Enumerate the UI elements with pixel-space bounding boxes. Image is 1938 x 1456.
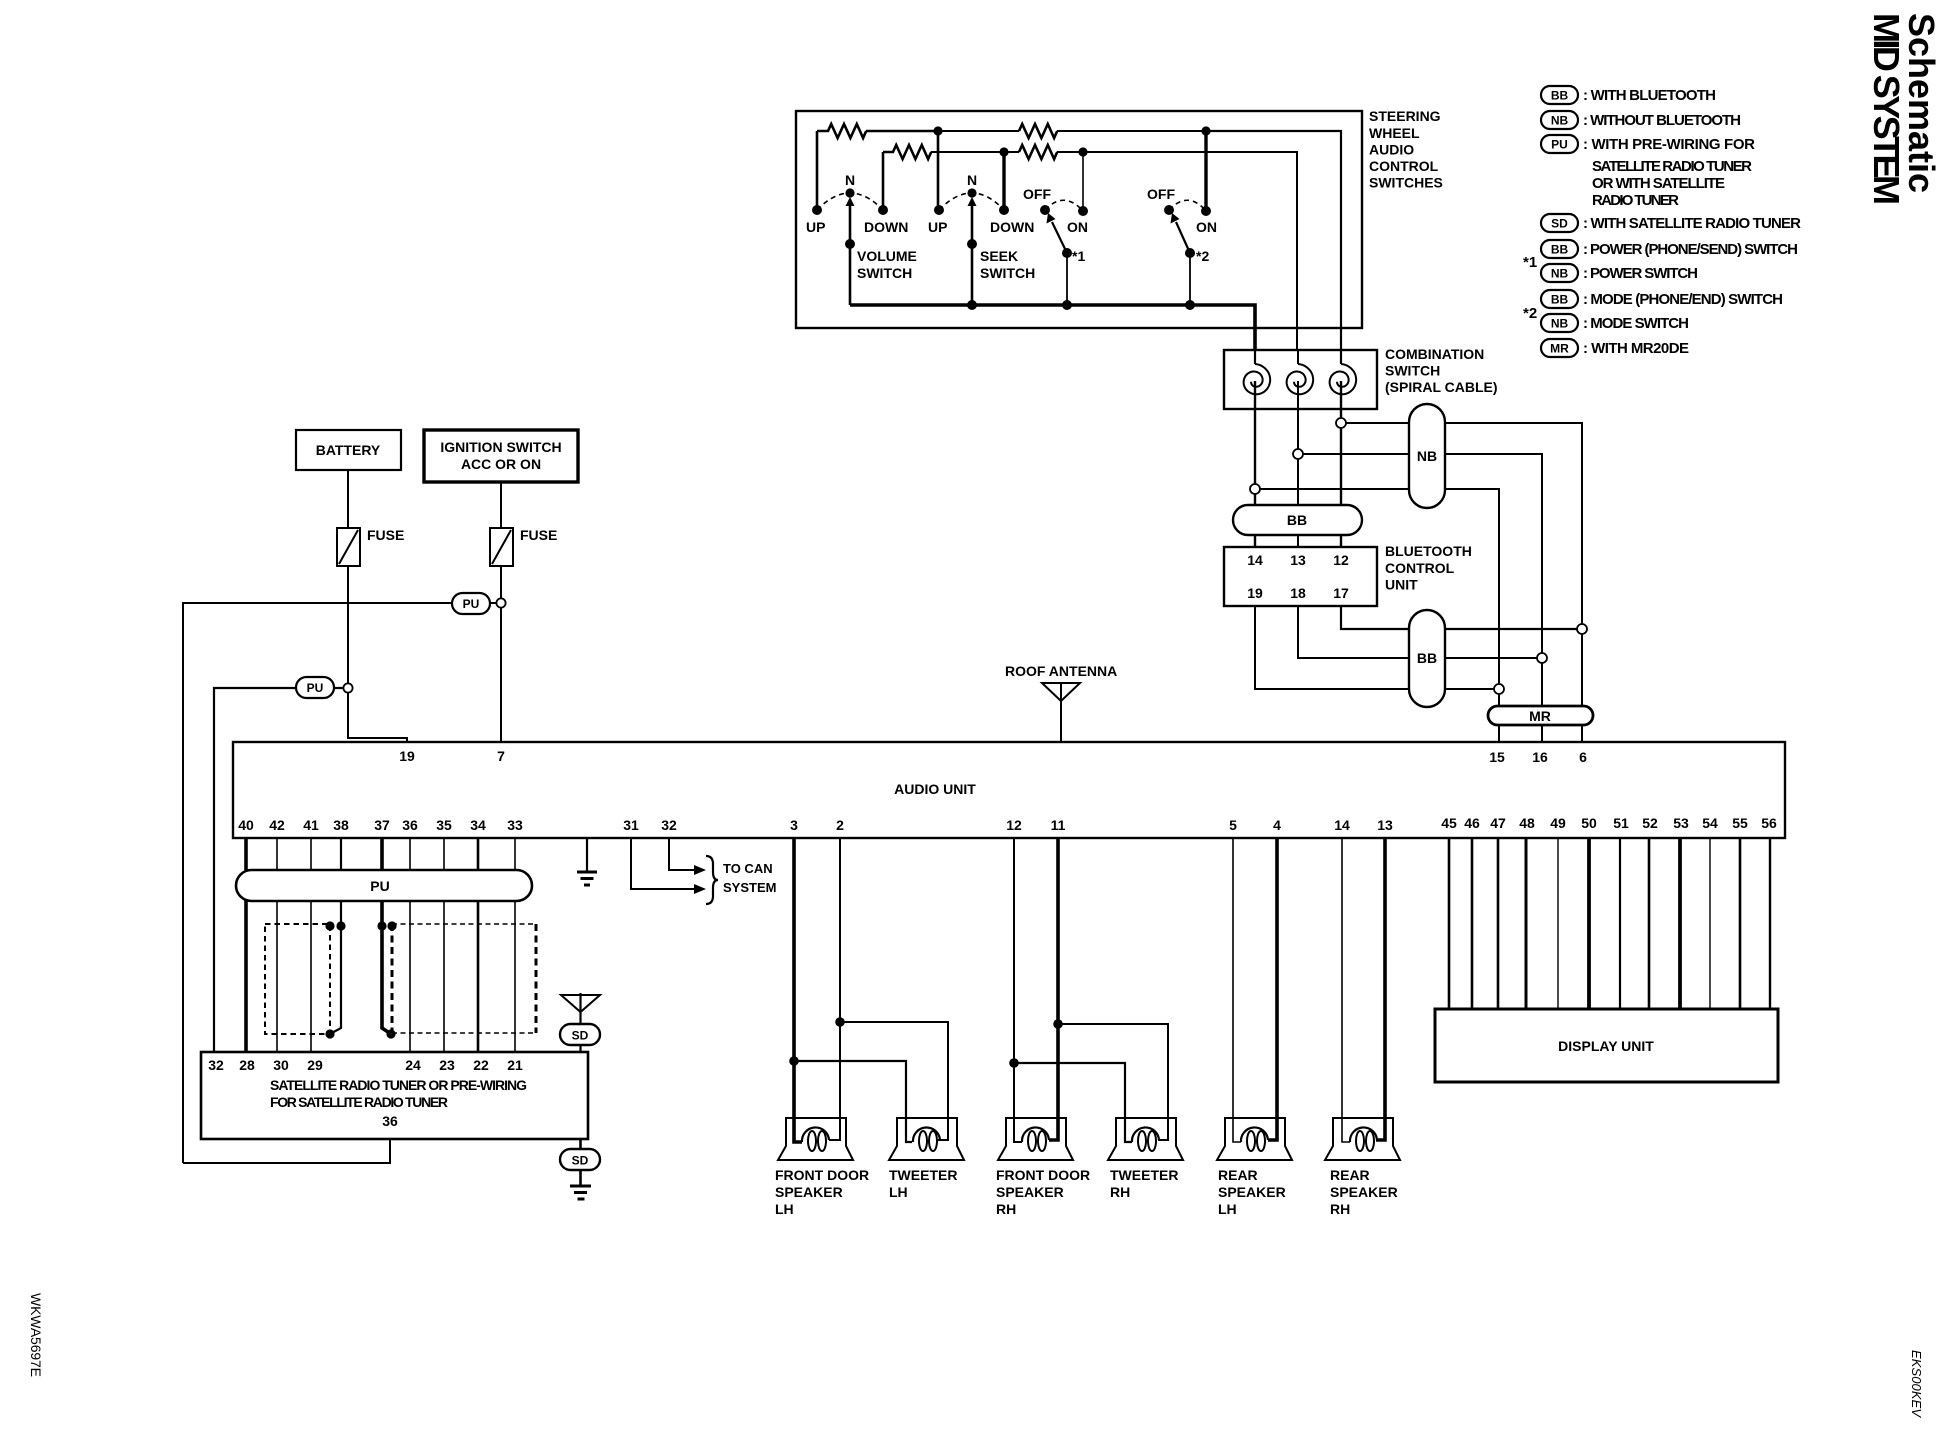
- svg-text:28: 28: [239, 1057, 255, 1073]
- wire junction d down to ON1: [1082, 152, 1084, 211]
- svg-text:NB: NB: [1417, 448, 1437, 464]
- wire common bus: [850, 305, 1255, 350]
- svg-text:22: 22: [473, 1057, 489, 1073]
- svg-text:RH: RH: [996, 1201, 1016, 1217]
- svg-text:RADIO TUNER: RADIO TUNER: [1592, 192, 1679, 209]
- node dashed box2 bottom tap: [386, 1029, 395, 1038]
- spiral cable coil 2: [1287, 364, 1314, 394]
- svg-text:21: 21: [507, 1057, 523, 1073]
- wire BCU pin 17 to tap: [1341, 606, 1577, 629]
- node N2: [967, 188, 976, 197]
- svg-text:REAR: REAR: [1330, 1167, 1370, 1183]
- arrow to CAN 1: [694, 865, 706, 875]
- wire pin 54: [1709, 838, 1711, 1009]
- wire pin 53: [1678, 838, 1682, 1009]
- wire audio pin 2 to front door speaker LH: [829, 838, 840, 1140]
- svg-text:: POWER SWITCH: : POWER SWITCH: [1583, 265, 1698, 282]
- wire audio pin 36 to tuner pin 24: [409, 838, 411, 1052]
- svg-text:54: 54: [1702, 815, 1718, 831]
- svg-text:2: 2: [836, 817, 844, 833]
- connector PU oval A: [452, 593, 490, 614]
- svg-text:NB: NB: [1551, 114, 1569, 128]
- wire BCU pin 18 to tap: [1298, 606, 1537, 658]
- title Schematic MID SYSTEM: [1866, 13, 1938, 205]
- wire row2 to junction d: [1057, 151, 1083, 153]
- satellite radio tuner box: [201, 1052, 588, 1139]
- wire coil2 inlet: [1297, 350, 1299, 364]
- svg-text:SPEAKER: SPEAKER: [1218, 1184, 1286, 1200]
- node UP2: [934, 205, 944, 215]
- wire pin 49: [1557, 838, 1559, 1009]
- svg-text:WKWA5697E: WKWA5697E: [28, 1293, 44, 1377]
- wire pin 52: [1648, 838, 1651, 1009]
- svg-text:BB: BB: [1287, 512, 1307, 528]
- label rear speaker RH: [1330, 1167, 1398, 1217]
- svg-text:15: 15: [1489, 749, 1505, 765]
- svg-text:40: 40: [238, 817, 254, 833]
- wire pin 55: [1739, 838, 1742, 1009]
- node row1-a: [933, 126, 942, 135]
- wire audio pin 13 to rear speaker RH: [1376, 838, 1385, 1140]
- svg-text:EKS00KEV: EKS00KEV: [1909, 1350, 1924, 1418]
- wire pin 48: [1525, 838, 1528, 1009]
- bottom pin row labels: [238, 815, 1777, 833]
- seek switch N contact dashed arc: [939, 193, 1004, 210]
- node dashed box1 bottom tap: [325, 1029, 334, 1038]
- node row2-c: [999, 147, 1008, 156]
- node pivot2: [1185, 248, 1195, 258]
- audio unit box: [233, 742, 1785, 838]
- node tap on wire 6: [1577, 624, 1587, 634]
- node pivot1: [1062, 248, 1072, 258]
- svg-text:OR WITH SATELLITE: OR WITH SATELLITE: [1592, 175, 1725, 192]
- connector SD oval bottom: [560, 1149, 600, 1170]
- node tap pin7 wire: [496, 598, 505, 607]
- wire pin 47: [1497, 838, 1500, 1009]
- wire pin 31 to CAN: [631, 838, 695, 889]
- label front door speaker RH: [996, 1167, 1090, 1217]
- wire junction down to UP2: [937, 131, 940, 210]
- wire audio pin 4 to rear speaker LH: [1268, 838, 1277, 1140]
- svg-text:MR: MR: [1529, 708, 1551, 724]
- wire 16 to audio unit: [1541, 663, 1543, 742]
- legend symbol BB mode switch: [1541, 290, 1578, 308]
- svg-text:49: 49: [1550, 815, 1566, 831]
- svg-text:PU: PU: [463, 597, 480, 611]
- svg-text:SWITCHES: SWITCHES: [1369, 175, 1443, 191]
- wire pivot1 to bus: [1066, 253, 1068, 305]
- svg-text:13: 13: [1377, 817, 1393, 833]
- tuner pin labels: [208, 1057, 523, 1073]
- wire audio pin 34 to tuner pin 22: [477, 838, 480, 1052]
- resistor R1: [817, 124, 866, 138]
- wire spiral2 down to bluetooth control unit pin 13: [1297, 381, 1299, 547]
- volume switch wiper arrow: [849, 203, 852, 244]
- wire junction c down to DOWN2: [1002, 152, 1005, 210]
- svg-text:RH: RH: [1110, 1184, 1130, 1200]
- node row1-b: [1201, 126, 1210, 135]
- svg-text:ON: ON: [1067, 219, 1088, 235]
- satellite antenna symbol: [561, 995, 600, 1012]
- bluetooth control unit box: [1224, 547, 1377, 606]
- svg-text:SATELLITE RADIO TUNER: SATELLITE RADIO TUNER: [1592, 158, 1752, 175]
- svg-text:CONTROL: CONTROL: [1385, 560, 1455, 576]
- wire tap to tweeter RH right: [1058, 1024, 1168, 1140]
- label bluetooth control unit: [1385, 543, 1472, 593]
- svg-text:UP: UP: [928, 219, 947, 235]
- wire audio pin 33 to tuner pin 21: [514, 838, 516, 1052]
- svg-text:N: N: [845, 172, 855, 188]
- wire audio pin 3 to front door speaker LH: [794, 838, 802, 1142]
- svg-text:55: 55: [1732, 815, 1748, 831]
- arrow to CAN 2: [694, 884, 706, 894]
- label tweeter RH: [1110, 1167, 1178, 1200]
- connector MR capsule: [1488, 706, 1593, 725]
- volume switch N contact dashed arc: [817, 193, 883, 210]
- wire row1 left vertical to UP1: [816, 131, 819, 210]
- pre-wiring dashed box 2: [391, 924, 394, 1033]
- node bus-pivot2: [1185, 300, 1195, 310]
- svg-text:*1: *1: [1523, 254, 1537, 271]
- svg-text:ON: ON: [1196, 219, 1217, 235]
- legend symbol NB mode switch: [1541, 314, 1578, 332]
- wire ignition to fuse: [500, 482, 502, 528]
- roof antenna: [1042, 683, 1080, 701]
- wire NB line 1: [1346, 423, 1582, 629]
- svg-text:37: 37: [374, 817, 390, 833]
- svg-text:14: 14: [1247, 552, 1263, 568]
- svg-text:BLUETOOTH: BLUETOOTH: [1385, 543, 1472, 559]
- legend symbol SD (satellite radio tuner): [1541, 214, 1578, 232]
- svg-text:: WITH PRE-WIRING FOR: : WITH PRE-WIRING FOR: [1583, 136, 1755, 153]
- svg-text:FRONT DOOR: FRONT DOOR: [775, 1167, 869, 1183]
- svg-text:RH: RH: [1330, 1201, 1350, 1217]
- power switch *1 OFF-ON dashed arc: [1045, 200, 1083, 211]
- connector BB capsule horizontal: [1233, 505, 1362, 535]
- wire coil3 inlet: [1340, 350, 1342, 364]
- svg-text:: WITHOUT BLUETOOTH: : WITHOUT BLUETOOTH: [1583, 112, 1741, 129]
- svg-text:12: 12: [1333, 552, 1349, 568]
- ground below audio: [577, 872, 597, 885]
- pre-wiring dashed box 1: [265, 924, 330, 1034]
- node wire38 top tap: [336, 921, 345, 930]
- node tap pin19 wire: [343, 683, 352, 692]
- wire row2 to R4: [1004, 151, 1019, 153]
- svg-text:DOWN: DOWN: [864, 219, 908, 235]
- svg-text:NB: NB: [1551, 317, 1569, 331]
- svg-text:29: 29: [307, 1057, 323, 1073]
- legend symbol NB power switch: [1541, 264, 1578, 282]
- svg-text:12: 12: [1006, 817, 1022, 833]
- resistor R2: [883, 145, 931, 159]
- svg-text:56: 56: [1761, 815, 1777, 831]
- wire battery to fuse: [347, 470, 349, 528]
- wire ground stub below audio: [586, 838, 588, 872]
- connector PU oval B: [296, 677, 334, 698]
- wire SD lower to ground: [579, 1170, 582, 1186]
- svg-text:*2: *2: [1523, 305, 1537, 322]
- node OFF2: [1164, 205, 1174, 215]
- svg-text:4: 4: [1273, 817, 1281, 833]
- speaker front door LH: [778, 1118, 853, 1160]
- node N1: [845, 188, 854, 197]
- node tap on wire 12: [1336, 418, 1346, 428]
- svg-text:SWITCH: SWITCH: [980, 265, 1035, 281]
- wire ignition fuse to audio pin 7: [500, 566, 502, 742]
- svg-text:WHEEL: WHEEL: [1369, 125, 1420, 141]
- wire spiral3 down to bluetooth control unit pin 12: [1340, 381, 1342, 547]
- node bus-seek: [967, 300, 977, 310]
- svg-text:DISPLAY UNIT: DISPLAY UNIT: [1558, 1038, 1654, 1054]
- node wire37 top tap: [377, 921, 386, 930]
- connector SD oval top: [560, 1024, 600, 1045]
- wire row2 right corner down: [1083, 152, 1297, 350]
- speaker rear LH: [1217, 1118, 1292, 1160]
- svg-text:17: 17: [1333, 585, 1349, 601]
- node volume wiper junction: [845, 239, 855, 249]
- speaker front door RH: [998, 1118, 1073, 1160]
- wire PU branch B: [214, 688, 344, 1052]
- wire NB line 2: [1303, 454, 1542, 658]
- svg-text:SchematicMID SYSTEM: SchematicMID SYSTEM: [1866, 13, 1938, 205]
- wire audio pin 12 to front door speaker RH: [1014, 838, 1022, 1142]
- wire spiral1 down to bluetooth control unit pin 14: [1254, 381, 1256, 547]
- svg-text:OFF: OFF: [1023, 186, 1051, 202]
- svg-text:53: 53: [1673, 815, 1689, 831]
- svg-text:LH: LH: [889, 1184, 908, 1200]
- wire pin 50: [1587, 838, 1591, 1009]
- battery box: [296, 430, 401, 470]
- svg-text:SEEK: SEEK: [980, 248, 1018, 264]
- wire audio pin 11 to front door speaker RH: [1049, 838, 1058, 1140]
- resistor R4: [1019, 145, 1057, 159]
- svg-text:13: 13: [1290, 552, 1306, 568]
- svg-text:UNIT: UNIT: [1385, 577, 1418, 593]
- svg-text:STEERING: STEERING: [1369, 108, 1441, 124]
- spiral cable coil 1: [1244, 364, 1271, 394]
- svg-text:19: 19: [1247, 585, 1263, 601]
- wire volume wiper to bus: [849, 244, 852, 305]
- svg-text:14: 14: [1334, 817, 1350, 833]
- label steering wheel audio control switches: [1369, 108, 1443, 191]
- svg-text:(SPIRAL CABLE): (SPIRAL CABLE): [1385, 379, 1498, 395]
- wire pin 45: [1448, 838, 1451, 1009]
- label combination switch (spiral cable): [1385, 346, 1498, 395]
- node dashed box2 top left tap: [387, 921, 396, 930]
- svg-text:SPEAKER: SPEAKER: [996, 1184, 1064, 1200]
- node tap pin12: [1009, 1058, 1019, 1068]
- legend symbol BB (with bluetooth): [1541, 86, 1578, 104]
- svg-text:TWEETER: TWEETER: [1110, 1167, 1178, 1183]
- wire row1 to junction b: [1057, 130, 1206, 132]
- svg-text:REAR: REAR: [1218, 1167, 1258, 1183]
- steering wheel audio control switches box: [796, 111, 1362, 328]
- wire pin 56: [1769, 838, 1771, 1009]
- svg-text:42: 42: [269, 817, 285, 833]
- node bus-pivot1: [1062, 300, 1072, 310]
- svg-text:IGNITION SWITCH: IGNITION SWITCH: [440, 439, 561, 455]
- svg-text:*2: *2: [1196, 248, 1209, 264]
- svg-text:6: 6: [1579, 749, 1587, 765]
- svg-text:32: 32: [208, 1057, 224, 1073]
- node tap pin11: [1053, 1019, 1063, 1029]
- wire SD to tuner box: [579, 1045, 581, 1052]
- svg-text:SYSTEM: SYSTEM: [723, 880, 776, 895]
- node tap on wire 15: [1494, 684, 1504, 694]
- svg-text:UP: UP: [806, 219, 825, 235]
- wire tuner to SD lower: [579, 1139, 582, 1149]
- svg-text:: MODE (PHONE/END) SWITCH: : MODE (PHONE/END) SWITCH: [1583, 291, 1783, 308]
- wire audio pin 42 to tuner pin 30: [276, 838, 278, 1052]
- svg-text:SATELLITE RADIO TUNER OR PRE-W: SATELLITE RADIO TUNER OR PRE-WIRING: [270, 1077, 527, 1093]
- svg-text:45: 45: [1441, 815, 1457, 831]
- svg-text:TO CAN: TO CAN: [723, 861, 773, 876]
- svg-text:AUDIO: AUDIO: [1369, 142, 1414, 158]
- svg-text:PU: PU: [307, 681, 324, 695]
- svg-text:31: 31: [623, 817, 639, 833]
- node tap pin3: [789, 1056, 799, 1066]
- wire tap to tweeter RH left: [1014, 1063, 1132, 1142]
- svg-text:47: 47: [1490, 815, 1506, 831]
- svg-text:LH: LH: [775, 1201, 794, 1217]
- svg-text:BB: BB: [1551, 243, 1569, 257]
- placeholder groups to be filled: [1523, 86, 1801, 357]
- svg-text:24: 24: [405, 1057, 421, 1073]
- wire 6 to audio unit: [1581, 634, 1583, 742]
- wire battery fuse down: [348, 566, 407, 742]
- svg-text:52: 52: [1642, 815, 1658, 831]
- label tweeter LH: [889, 1167, 957, 1200]
- CAN brace: [706, 856, 718, 904]
- wire pin 46: [1471, 838, 1474, 1009]
- node DOWN2: [999, 205, 1009, 215]
- svg-text:41: 41: [303, 817, 319, 833]
- svg-text:LH: LH: [1218, 1201, 1237, 1217]
- svg-text:OFF: OFF: [1147, 186, 1175, 202]
- speaker rear RH: [1325, 1118, 1400, 1160]
- svg-text:: WITH SATELLITE RADIO TUNER: : WITH SATELLITE RADIO TUNER: [1583, 215, 1801, 232]
- wire BCU pin 19 to tap: [1255, 606, 1494, 689]
- wire audio pin 37: [382, 838, 391, 1034]
- svg-text:30: 30: [273, 1057, 289, 1073]
- node OFF1: [1040, 205, 1050, 215]
- wire row1 right corner down: [1206, 131, 1341, 350]
- svg-text:COMBINATION: COMBINATION: [1385, 346, 1484, 362]
- fuse battery: [337, 528, 360, 566]
- svg-text:: MODE SWITCH: : MODE SWITCH: [1583, 315, 1689, 332]
- wire NB line 3: [1260, 489, 1499, 689]
- legend symbol MR (with MR20DE): [1541, 339, 1578, 357]
- svg-text:: WITH BLUETOOTH: : WITH BLUETOOTH: [1583, 87, 1716, 104]
- svg-text:FRONT DOOR: FRONT DOOR: [996, 1167, 1090, 1183]
- node row2-d: [1078, 147, 1087, 156]
- svg-text:AUDIO UNIT: AUDIO UNIT: [894, 781, 976, 797]
- svg-text:35: 35: [436, 817, 452, 833]
- svg-text:32: 32: [661, 817, 677, 833]
- wire tap to tweeter LH right: [840, 1022, 948, 1140]
- svg-text:NB: NB: [1551, 267, 1569, 281]
- wire 15 to audio unit: [1498, 694, 1500, 742]
- svg-text:16: 16: [1532, 749, 1548, 765]
- combination switch (spiral cable) box: [1224, 350, 1377, 409]
- wire audio pin 38: [330, 838, 341, 1034]
- wire junction b down to ON2: [1204, 131, 1207, 211]
- svg-text:5: 5: [1229, 817, 1237, 833]
- wire audio pin 41 to tuner pin 29: [310, 838, 312, 1052]
- node dashed box1 top left tap: [325, 921, 334, 930]
- label rear speaker LH: [1218, 1167, 1286, 1217]
- spiral cable coil 3: [1330, 364, 1357, 394]
- legend symbol NB (without bluetooth): [1541, 111, 1578, 129]
- node tap on wire 16: [1537, 653, 1547, 663]
- svg-text:7: 7: [497, 748, 505, 764]
- wire coil1 inlet: [1254, 350, 1256, 364]
- svg-text:11: 11: [1051, 817, 1066, 833]
- display unit box: [1435, 1009, 1778, 1082]
- svg-text:50: 50: [1581, 815, 1597, 831]
- svg-text:*1: *1: [1072, 248, 1085, 264]
- svg-text:51: 51: [1613, 815, 1629, 831]
- svg-text:SD: SD: [572, 1154, 589, 1168]
- svg-text:SPEAKER: SPEAKER: [775, 1184, 843, 1200]
- wire pivot2 to bus: [1189, 253, 1191, 305]
- speaker tweeter LH: [889, 1118, 964, 1160]
- svg-text:ACC OR ON: ACC OR ON: [461, 456, 541, 472]
- wire pin 32 to CAN: [669, 838, 695, 870]
- power switch *1 arm: [1052, 222, 1067, 253]
- label seek switch: [980, 248, 1035, 281]
- label to CAN system: [723, 861, 776, 895]
- svg-text:TWEETER: TWEETER: [889, 1167, 957, 1183]
- svg-text:36: 36: [382, 1113, 398, 1129]
- node ON2: [1201, 206, 1211, 216]
- wire audio pin 5 to rear speaker LH: [1233, 838, 1241, 1142]
- svg-text:34: 34: [470, 817, 486, 833]
- svg-text:PU: PU: [370, 878, 389, 894]
- fuse ignition: [490, 528, 513, 566]
- svg-text:N: N: [967, 172, 977, 188]
- svg-text:BB: BB: [1551, 293, 1569, 307]
- connector BB capsule vertical: [1409, 610, 1445, 707]
- node tap on wire 13: [1293, 449, 1303, 459]
- wire row2 to junction c: [931, 151, 1004, 153]
- svg-text:19: 19: [399, 748, 415, 764]
- legend symbol PU (pre-wiring): [1541, 135, 1578, 153]
- label volume switch: [857, 248, 917, 281]
- speaker tweeter RH: [1108, 1118, 1183, 1160]
- wire tuner pin 36 return: [183, 1139, 390, 1163]
- wire row1 to R3: [938, 130, 1019, 132]
- svg-text:FUSE: FUSE: [367, 527, 404, 543]
- svg-text:48: 48: [1519, 815, 1535, 831]
- legend symbol BB power switch: [1541, 240, 1578, 258]
- svg-text:BB: BB: [1551, 89, 1569, 103]
- svg-text:: POWER (PHONE/SEND) SWITCH: : POWER (PHONE/SEND) SWITCH: [1583, 241, 1798, 258]
- wire tap to tweeter LH left: [794, 1061, 912, 1142]
- svg-text:3: 3: [790, 817, 798, 833]
- svg-text:: WITH MR20DE: : WITH MR20DE: [1583, 340, 1689, 357]
- svg-text:PU: PU: [1551, 138, 1568, 152]
- node tap on wire 14: [1250, 484, 1260, 494]
- node ON1: [1078, 206, 1088, 216]
- svg-text:SPEAKER: SPEAKER: [1330, 1184, 1398, 1200]
- seek switch wiper arrow: [971, 203, 974, 244]
- mode switch *2 OFF-ON dashed arc: [1169, 200, 1206, 211]
- wire audio pin 14 to rear speaker RH: [1342, 838, 1350, 1142]
- svg-text:MR: MR: [1550, 342, 1569, 356]
- svg-text:SD: SD: [1551, 217, 1568, 231]
- svg-text:33: 33: [507, 817, 523, 833]
